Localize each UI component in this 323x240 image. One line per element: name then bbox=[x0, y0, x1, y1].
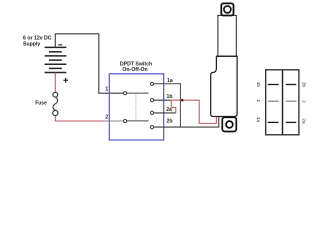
fuse F1 bbox=[53, 92, 58, 115]
svg-text:2: 2 bbox=[105, 114, 108, 120]
svg-text:1b: 1b bbox=[167, 94, 173, 100]
battery B1 bbox=[45, 47, 67, 72]
wire 1a to 2b (black) bbox=[154, 84, 181, 127]
connector bar 2b bbox=[286, 84, 297, 86]
wire 1b (black segment) bbox=[154, 99, 171, 101]
svg-text:2: 2 bbox=[301, 100, 306, 103]
connector bar 1a bbox=[268, 121, 279, 123]
label DPDT Switch bbox=[120, 62, 152, 73]
svg-text:1a: 1a bbox=[256, 117, 261, 123]
actuator bottom clevis bbox=[222, 117, 236, 131]
mechanical link (dashed) bbox=[135, 94, 137, 119]
connector bar 1b bbox=[268, 84, 279, 86]
svg-text:1b: 1b bbox=[256, 82, 261, 88]
connector bar 2a bbox=[286, 121, 297, 123]
connector bar 2 bbox=[286, 100, 297, 102]
throw terminal 1a bbox=[150, 82, 153, 85]
wire battery positive to fuse (red) bbox=[54, 73, 56, 93]
svg-text:Fuse: Fuse bbox=[35, 100, 47, 106]
pole 1 lever bbox=[127, 92, 149, 94]
throw terminal 1b bbox=[150, 99, 153, 102]
pole 2 lever bbox=[127, 120, 149, 122]
actuator top clevis bbox=[221, 3, 233, 15]
svg-text:On-Off-On: On-Off-On bbox=[122, 67, 147, 73]
throw terminal 2a bbox=[150, 111, 153, 114]
battery minus sign bbox=[58, 44, 62, 46]
actuator body top edge bbox=[216, 55, 237, 57]
wire 2b to actuator (black) bbox=[154, 116, 219, 127]
connector labels right bbox=[301, 82, 306, 124]
svg-text:1: 1 bbox=[105, 86, 108, 92]
wire fuse to switch pole 2 (red) bbox=[55, 116, 105, 121]
actuator top clevis hole bbox=[224, 6, 231, 13]
svg-text:2b: 2b bbox=[301, 82, 306, 88]
connector center line bbox=[282, 70, 284, 134]
connector block J1 bbox=[266, 70, 299, 135]
svg-text:1a: 1a bbox=[167, 78, 173, 84]
DPDT switch box bbox=[109, 74, 163, 140]
wire 2a (black segment) bbox=[154, 112, 176, 114]
pole 2 terminal bbox=[124, 119, 127, 122]
throw terminal 2b bbox=[150, 126, 153, 129]
svg-text:2a: 2a bbox=[301, 118, 306, 124]
wire pole 2 feed (gray) bbox=[105, 120, 123, 122]
junction node bbox=[181, 99, 183, 101]
connector bar 1 bbox=[268, 100, 279, 102]
battery plus sign bbox=[63, 78, 68, 83]
wire 1b to 2a crossover (red) bbox=[171, 100, 176, 113]
actuator rod tube bbox=[218, 15, 236, 56]
svg-text:Supply: Supply bbox=[23, 41, 40, 47]
actuator bottom clevis hole bbox=[226, 121, 233, 128]
wire battery negative to switch pole 1 bbox=[55, 34, 123, 93]
wire 1b to motor (red) bbox=[171, 100, 216, 123]
svg-text:2b: 2b bbox=[167, 118, 173, 124]
label supply text bbox=[23, 36, 52, 48]
svg-text:1: 1 bbox=[256, 100, 261, 103]
connector labels left bbox=[256, 82, 261, 123]
pole 1 terminal bbox=[124, 92, 127, 95]
actuator body bbox=[211, 56, 237, 116]
